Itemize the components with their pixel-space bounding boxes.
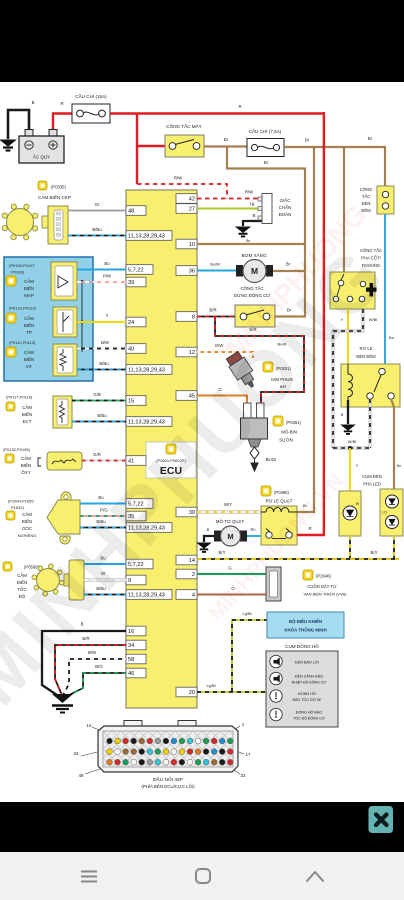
spark plug BUGI xyxy=(250,447,259,459)
svg-text:CẦU CHÌ (15A): CẦU CHÌ (15A) xyxy=(75,93,107,99)
svg-text:B/W: B/W xyxy=(101,340,110,345)
connector 48P body xyxy=(124,721,142,728)
svg-text:CẢM: CẢM xyxy=(22,512,32,517)
wire Lg/Bl ECU pin20 xyxy=(197,691,266,693)
wire B fan motor ground xyxy=(204,536,214,542)
svg-text:33: 33 xyxy=(74,751,79,756)
svg-text:RƠ LE: RƠ LE xyxy=(360,346,373,351)
node Br vertical unfused xyxy=(304,168,306,317)
ground night relay xyxy=(342,425,355,434)
svg-text:ĐỒNG HỒ BÁO: ĐỒNG HỒ BÁO xyxy=(296,710,323,715)
wire G/B ECT xyxy=(72,400,126,402)
svg-text:B/G: B/G xyxy=(95,664,103,669)
nav icon menu xyxy=(81,872,97,882)
close button xyxy=(369,806,394,833)
svg-text:BIẾN: BIẾN xyxy=(24,323,34,328)
svg-text:(P0117,P0118): (P0117,P0118) xyxy=(6,395,33,400)
svg-text:Lg: Lg xyxy=(250,201,255,206)
svg-text:TỐC ĐỘ ĐỘNG CƠ: TỐC ĐỘ ĐỘNG CƠ xyxy=(293,716,325,721)
svg-text:CÔNG TẮC: CÔNG TẮC xyxy=(240,286,263,291)
svg-text:SƯỜN: SƯỜN xyxy=(279,438,293,443)
svg-text:ĐOÁN: ĐOÁN xyxy=(279,212,292,217)
svg-text:Y: Y xyxy=(356,463,359,468)
CKP reluctor wheel xyxy=(7,209,34,236)
svg-text:BIẾN: BIẾN xyxy=(24,286,34,291)
svg-text:M: M xyxy=(251,266,258,276)
wire R battery to fan relay xyxy=(297,112,324,535)
wire R battery to fuse xyxy=(53,114,72,130)
wire Y headlamp switch to relay coil xyxy=(347,309,349,364)
svg-text:HI: HI xyxy=(356,502,360,506)
svg-text:ÔXY: ÔXY xyxy=(21,470,30,475)
sensor cluster MAP/TP/IAT box xyxy=(4,257,93,381)
wire B/W IAT xyxy=(77,348,126,350)
wire B/R ECU pin34 to ground xyxy=(55,645,126,694)
wire Gr CKP xyxy=(68,210,126,212)
ground battery xyxy=(1,140,16,151)
wire Bu/Bl fuel pump xyxy=(197,270,237,272)
svg-text:(P0351): (P0351) xyxy=(286,420,302,425)
svg-text:NGHIÊNG: NGHIÊNG xyxy=(18,533,37,538)
svg-text:CẦU CHÌ (7,5A): CẦU CHÌ (7,5A) xyxy=(249,128,282,134)
svg-text:B/Bu: B/Bu xyxy=(92,227,102,232)
svg-text:P1632): P1632) xyxy=(11,505,25,510)
svg-text:P0108): P0108) xyxy=(11,270,25,275)
svg-text:B: B xyxy=(207,527,210,532)
wire W speed xyxy=(84,579,126,582)
svg-text:17: 17 xyxy=(246,752,251,757)
svg-text:8: 8 xyxy=(192,315,195,321)
svg-text:CẢM: CẢM xyxy=(24,316,34,321)
top status bar xyxy=(0,0,404,82)
svg-text:Br: Br xyxy=(224,137,229,142)
wire Bu night switch to relay xyxy=(384,214,386,364)
nav icon back xyxy=(307,872,323,881)
wire B/Bu tilt xyxy=(80,527,126,529)
svg-text:W/Y: W/Y xyxy=(224,502,232,507)
svg-text:Bu: Bu xyxy=(251,527,256,532)
svg-text:Lg/Bl: Lg/Bl xyxy=(242,611,251,616)
wire Bu speed xyxy=(84,563,126,565)
wire B/Bu IAT ground xyxy=(77,369,126,371)
svg-text:36: 36 xyxy=(189,269,195,275)
svg-text:24: 24 xyxy=(128,320,134,326)
svg-text:1: 1 xyxy=(242,722,245,727)
svg-text:CÔNG TẮC MÁY: CÔNG TẮC MÁY xyxy=(166,122,201,129)
svg-text:B: B xyxy=(253,213,256,218)
wire B/Bu CKP xyxy=(68,235,126,237)
wire P/W MAP signal xyxy=(77,281,126,283)
wire Br to headlamp switch xyxy=(343,146,345,272)
svg-text:GIẮC: GIẮC xyxy=(280,198,291,203)
svg-text:BIẾN: BIẾN xyxy=(24,357,34,362)
svg-text:42: 42 xyxy=(189,197,195,203)
wire B/R ECU pin8 to stop switch xyxy=(197,316,235,318)
svg-text:CẢM BIẾN CKP: CẢM BIẾN CKP xyxy=(38,194,71,200)
wire Bu MAP 5V xyxy=(77,269,126,271)
svg-text:33: 33 xyxy=(241,773,246,778)
diagnostic connector GIAC CHAN DOAN xyxy=(258,197,262,201)
label (P0351) MO-BIN SUON xyxy=(273,416,283,426)
svg-text:5,7,22: 5,7,22 xyxy=(128,268,144,274)
nav icon home xyxy=(196,869,210,883)
svg-text:VAN BIẾN THIÊN (VVA): VAN BIẾN THIÊN (VVA) xyxy=(304,592,348,597)
svg-text:B: B xyxy=(341,412,344,417)
wire B/Bu speed xyxy=(84,594,126,596)
svg-text:Y: Y xyxy=(106,313,109,318)
svg-text:PHA LED: PHA LED xyxy=(363,482,381,487)
wire Br fused main xyxy=(284,146,385,148)
wire B battery to ground xyxy=(8,110,29,139)
svg-text:Gr: Gr xyxy=(95,202,100,207)
svg-text:CẢM: CẢM xyxy=(22,405,32,410)
svg-text:11,13,28,29,43: 11,13,28,29,43 xyxy=(128,234,165,240)
ECU label box xyxy=(146,442,196,478)
fan relay box xyxy=(261,506,297,545)
wire Y TP signal xyxy=(77,321,126,323)
svg-text:BÁO TỐC ĐỘ XE: BÁO TỐC ĐỘ XE xyxy=(292,697,322,702)
CKP connector xyxy=(42,216,49,228)
svg-text:Bu: Bu xyxy=(104,261,110,266)
svg-text:W/Bl: W/Bl xyxy=(348,439,357,444)
svg-text:B: B xyxy=(32,100,35,105)
svg-text:Br: Br xyxy=(264,160,269,165)
svg-text:(P2646): (P2646) xyxy=(316,574,332,579)
battery ACQUY xyxy=(25,130,33,137)
sensor U-MAP subbox xyxy=(51,262,77,300)
sensor R-IAT subbox xyxy=(53,344,77,376)
svg-text:16: 16 xyxy=(128,629,134,635)
svg-text:(P0112,P0113): (P0112,P0113) xyxy=(9,340,36,345)
svg-text:ĐÈN BÁO LỖI: ĐÈN BÁO LỖI xyxy=(295,660,319,665)
connector hatch xyxy=(31,731,400,767)
svg-text:34: 34 xyxy=(128,643,134,649)
svg-text:ECT: ECT xyxy=(23,419,32,424)
tilt sensor body xyxy=(61,492,71,500)
svg-text:4: 4 xyxy=(192,593,195,599)
wire Lg diag K-line xyxy=(197,208,262,210)
wire G/R O2 xyxy=(82,460,126,462)
wire B/Y LED grounds xyxy=(349,536,351,559)
passing button glyph xyxy=(370,283,374,297)
svg-text:BIẾN: BIẾN xyxy=(22,412,32,417)
wire Bu tilt xyxy=(80,503,126,505)
svg-text:B/R: B/R xyxy=(209,308,216,313)
ground fan motor xyxy=(198,543,211,552)
svg-text:Lg/Bl: Lg/Bl xyxy=(206,683,215,688)
svg-text:BUGI: BUGI xyxy=(266,457,277,462)
svg-text:Bu: Bu xyxy=(389,335,394,340)
svg-text:MÔ-BIN: MÔ-BIN xyxy=(281,430,297,435)
wire Br to night switch xyxy=(384,146,386,186)
svg-text:KHÓA THÔNG MINH: KHÓA THÔNG MINH xyxy=(284,628,326,633)
svg-text:R/W: R/W xyxy=(174,176,183,181)
svg-text:11,13,28,29,43: 11,13,28,29,43 xyxy=(128,593,165,599)
svg-text:CUỘN DÂY TỪ: CUỘN DÂY TỪ xyxy=(307,584,337,589)
speed reluctor wheel xyxy=(37,569,60,592)
svg-text:ĐÈN: ĐÈN xyxy=(362,201,371,206)
svg-text:ĐÈN CẢNH BÁO: ĐÈN CẢNH BÁO xyxy=(295,674,323,679)
svg-text:B/Bu: B/Bu xyxy=(97,413,107,418)
svg-text:Br: Br xyxy=(246,238,251,243)
wire G/W ECU pin12 to injector xyxy=(197,352,253,358)
svg-text:B/Y: B/Y xyxy=(219,550,226,555)
LED unit left HI xyxy=(339,491,361,536)
wire Br stop switch out xyxy=(275,315,306,317)
ECU right pin boxes xyxy=(176,194,197,204)
svg-text:MAP: MAP xyxy=(24,293,34,298)
svg-text:B/Bu: B/Bu xyxy=(99,361,109,366)
VVA solenoid connector xyxy=(266,567,281,601)
svg-text:39: 39 xyxy=(128,280,134,286)
svg-text:CỤM ĐỒNG HỒ: CỤM ĐỒNG HỒ xyxy=(285,643,319,649)
svg-text:11,13,28,29,43: 11,13,28,29,43 xyxy=(128,420,165,426)
svg-text:MÔ-TƠ QUẠT: MÔ-TƠ QUẠT xyxy=(216,519,245,524)
wire B/Bu ECT xyxy=(72,421,126,423)
svg-text:ĐÈN ĐÊM: ĐÈN ĐÊM xyxy=(356,354,376,359)
wire B ECU pin16 to ground xyxy=(42,631,126,697)
svg-text:12: 12 xyxy=(189,350,195,356)
ignition coil MO-BIN SUON xyxy=(244,403,252,418)
svg-text:R/W: R/W xyxy=(245,190,254,195)
wire B/Y main from ECU pin14 xyxy=(197,558,399,560)
svg-text:46: 46 xyxy=(128,671,134,677)
svg-text:20: 20 xyxy=(189,690,195,696)
svg-text:Br: Br xyxy=(305,138,310,143)
op-amp ECU main box xyxy=(126,190,197,708)
svg-text:R: R xyxy=(60,101,63,106)
svg-text:2: 2 xyxy=(192,572,195,578)
svg-text:B/W: B/W xyxy=(88,650,97,655)
wire B diag ground xyxy=(243,221,262,226)
label (P0480) RO LE QUAT xyxy=(261,486,271,496)
watermark pink stamp xyxy=(203,199,372,626)
bottom black bar xyxy=(0,802,404,852)
svg-text:CẢM: CẢM xyxy=(24,279,34,284)
cluster lamp DEN CANH BAO NHIET DO xyxy=(270,672,282,684)
svg-text:LO: LO xyxy=(382,511,387,515)
sensor CKP label (P0335) xyxy=(38,181,47,190)
svg-text:CÔNG TẮC: CÔNG TẮC xyxy=(360,248,382,253)
svg-text:27: 27 xyxy=(189,207,195,213)
svg-text:IAT: IAT xyxy=(26,364,33,369)
svg-text:(P0335): (P0335) xyxy=(51,185,67,190)
wire Y to left LED xyxy=(349,448,351,491)
wire R/W diag power xyxy=(197,198,262,200)
svg-text:Br: Br xyxy=(368,136,373,141)
svg-text:40: 40 xyxy=(128,347,134,353)
svg-text:G/R: G/R xyxy=(93,452,101,457)
svg-text:CẢM: CẢM xyxy=(21,456,31,461)
watermark diagonal gray text xyxy=(0,230,404,721)
svg-text:Br: Br xyxy=(397,463,402,468)
svg-text:B/Y: B/Y xyxy=(371,550,378,555)
label (P2646) VVA xyxy=(303,570,313,580)
svg-text:BIẾN: BIẾN xyxy=(22,519,32,524)
wire Br to right LED xyxy=(391,399,394,489)
svg-text:(P0132,P2195): (P0132,P2195) xyxy=(3,447,31,452)
ECU left pin boxes xyxy=(126,206,146,216)
wire Br switch to fuse2 xyxy=(204,145,247,147)
wire Br fused to fan relay xyxy=(297,146,314,512)
wire O ECU pin45 to coil xyxy=(197,396,247,404)
wire P/G tilt xyxy=(80,515,126,517)
internal sensor bus xyxy=(81,282,83,353)
svg-text:48: 48 xyxy=(128,209,134,215)
svg-text:16: 16 xyxy=(87,723,92,728)
ground diag xyxy=(236,227,250,236)
svg-text:(PHÍA BÊN ECU/CỰC LỒI): (PHÍA BÊN ECU/CỰC LỒI) xyxy=(141,784,195,789)
injector KIM PHUN xyxy=(225,350,261,392)
svg-text:(P1604,P1605: (P1604,P1605 xyxy=(8,499,34,504)
wire B/R injector feed branch xyxy=(215,317,304,403)
svg-text:CÔNG: CÔNG xyxy=(360,187,373,192)
ground sensors common xyxy=(52,694,73,703)
svg-text:GÓC: GÓC xyxy=(22,526,32,531)
bottom nav bar xyxy=(0,852,404,900)
cluster gauge rpm xyxy=(270,708,282,720)
wire B/W ECU pin58 to ground xyxy=(63,659,126,695)
wire Br fuel pump xyxy=(273,270,306,272)
svg-text:BƠM XĂNG: BƠM XĂNG xyxy=(241,252,267,258)
cluster lamp DEN BAO LOI xyxy=(270,655,282,667)
svg-text:TP: TP xyxy=(26,330,32,335)
svg-text:RƠ LE QUẠT: RƠ LE QUẠT xyxy=(266,499,293,504)
speed sensor connector xyxy=(64,574,70,586)
wire R main feed xyxy=(110,112,324,114)
wire Bu fan motor to relay xyxy=(247,535,261,537)
svg-text:11,13,28,29,43: 11,13,28,29,43 xyxy=(128,368,165,374)
svg-text:14: 14 xyxy=(189,558,195,564)
svg-text:(P0122,P0123): (P0122,P0123) xyxy=(9,306,37,311)
svg-text:(P0105,P0107: (P0105,P0107 xyxy=(9,263,35,268)
svg-text:ẮC QUY: ẮC QUY xyxy=(33,153,50,160)
svg-text:CHẨN: CHẨN xyxy=(279,205,291,210)
svg-text:(P0480): (P0480) xyxy=(274,490,290,495)
wire O ECU pin4 to VVA xyxy=(197,594,266,596)
svg-text:BIẾN: BIẾN xyxy=(21,463,31,468)
svg-text:TẮC: TẮC xyxy=(362,194,370,199)
wire W/Bl headlamp switch xyxy=(333,309,363,448)
smart key control box xyxy=(267,612,344,638)
svg-text:CỤM ĐÈN: CỤM ĐÈN xyxy=(362,474,382,479)
svg-text:P/W: P/W xyxy=(103,274,112,279)
wire Br ECU pin10 xyxy=(197,243,306,245)
svg-text:G/B: G/B xyxy=(93,392,101,397)
svg-text:NHIỆT ĐỘ ĐỘNG CƠ: NHIỆT ĐỘ ĐỘNG CƠ xyxy=(292,680,327,685)
wire W/Bl relay contact down xyxy=(369,399,372,448)
svg-text:48: 48 xyxy=(79,773,84,778)
wire Lg/Bl branch to smart key xyxy=(232,620,267,692)
svg-text:G: G xyxy=(228,566,232,571)
svg-text:R: R xyxy=(238,104,241,109)
LED unit right LO xyxy=(380,489,403,536)
sensor R-TP subbox xyxy=(53,307,77,337)
wire R drop to ignition switch xyxy=(136,113,138,185)
connector pin dots xyxy=(107,738,113,744)
svg-text:10: 10 xyxy=(189,242,195,248)
wire B/G ECU pin46 to ground xyxy=(65,673,126,697)
svg-text:BỘ ĐIỀU KHIỂN: BỘ ĐIỀU KHIỂN xyxy=(289,619,322,624)
svg-text:58: 58 xyxy=(128,657,134,663)
svg-text:M: M xyxy=(227,532,233,541)
sensor speed (P0500) xyxy=(3,562,12,571)
svg-text:Bu/Bl: Bu/Bl xyxy=(210,262,220,267)
wire W/Y ECU pin30 to fan relay xyxy=(197,511,261,514)
svg-text:CẢM: CẢM xyxy=(24,350,34,355)
wire G ECU pin2 to VVA xyxy=(197,573,266,575)
wire Br unfused branch xyxy=(227,147,306,169)
svg-text:ĐỒNG HỒ: ĐỒNG HỒ xyxy=(298,691,316,696)
label (P0201) KIM PHUN xyxy=(263,362,273,372)
wire B relay coil ground xyxy=(347,400,349,424)
svg-text:ĐẦU NỐI 48P: ĐẦU NỐI 48P xyxy=(153,776,183,783)
svg-text:15: 15 xyxy=(128,399,134,405)
cluster gauge speed xyxy=(270,690,282,702)
